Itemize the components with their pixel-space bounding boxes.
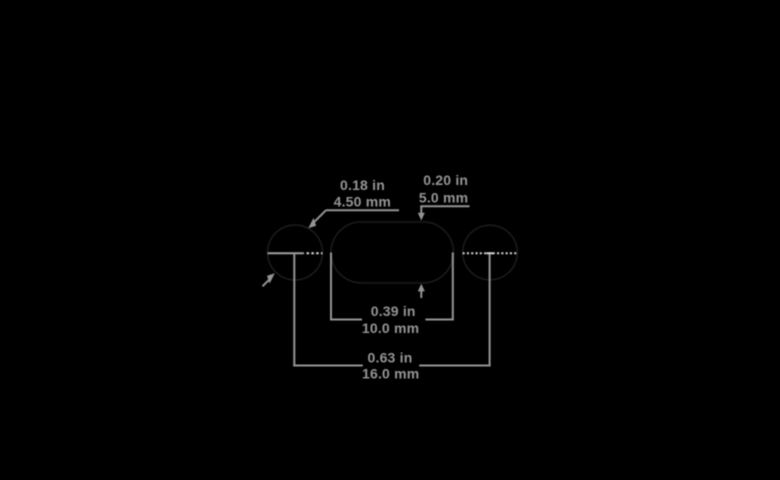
- arrowhead up at slot bottom edge: [418, 284, 425, 292]
- svg-text:0.63 in: 0.63 in: [368, 350, 413, 366]
- arrowhead down at slot top edge: [418, 213, 425, 221]
- svg-text:10.0 mm: 10.0 mm: [362, 320, 419, 336]
- left centerline solid segment: [268, 252, 305, 254]
- svg-text:4.50 mm: 4.50 mm: [334, 193, 391, 209]
- arrow SW tail: [263, 278, 271, 286]
- right pad circle: [463, 225, 518, 280]
- svg-text:16.0 mm: 16.0 mm: [362, 366, 419, 382]
- extension line slot left edge: [330, 253, 332, 321]
- dimension line 10.0 mm right segment: [425, 319, 453, 321]
- leader underline 5.0 mm: [420, 205, 469, 207]
- leader diagonal 4.50 mm: [313, 210, 327, 224]
- svg-text:0.18 in: 0.18 in: [340, 177, 385, 193]
- left pad circle: [268, 225, 323, 280]
- svg-text:0.39 in: 0.39 in: [371, 303, 416, 319]
- dimension line 16.0 mm left segment: [293, 365, 363, 367]
- leader underline 4.50 mm: [326, 209, 399, 211]
- arrowhead pointing SW at left circle upper edge: [308, 218, 316, 228]
- left centerline dashes: [307, 252, 323, 254]
- dimension line 16.0 mm right segment: [419, 365, 490, 367]
- extension line right circle center: [489, 254, 491, 367]
- right centerline dashes: [463, 252, 518, 254]
- extension line slot right edge: [452, 253, 454, 321]
- extension line left circle center: [293, 253, 295, 366]
- slot obround: [331, 222, 454, 283]
- svg-text:5.0 mm: 5.0 mm: [419, 189, 468, 205]
- arrowhead pointing NE at left circle lower edge: [267, 273, 275, 283]
- svg-text:0.20 in: 0.20 in: [423, 172, 468, 188]
- arrow up tail below slot: [420, 291, 422, 299]
- dimension line 10.0 mm left segment: [330, 319, 362, 321]
- right centerline long dash at center: [487, 252, 494, 254]
- leader vertical 5.0 mm: [420, 206, 422, 213]
